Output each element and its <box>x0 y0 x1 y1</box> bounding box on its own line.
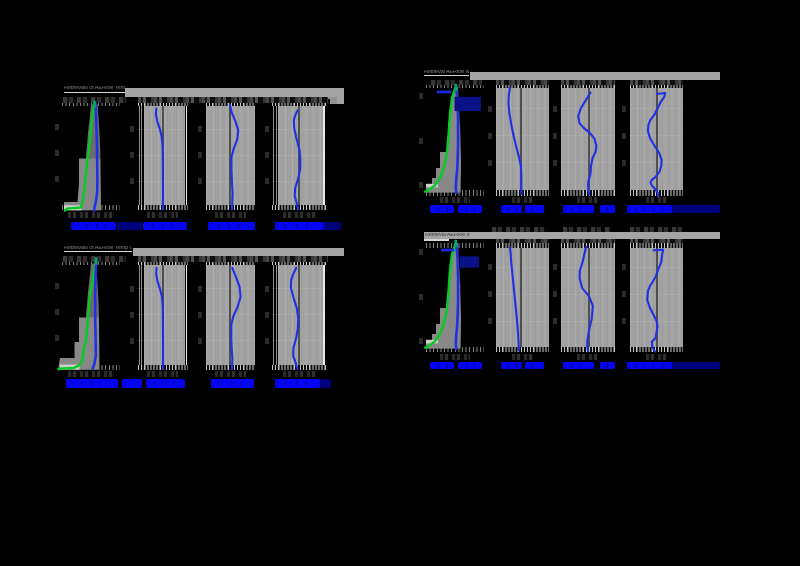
G1 label word gap <box>218 224 219 229</box>
G4 label word gap <box>644 363 645 368</box>
G2 profile subplot gray uncertainty envelope <box>426 87 462 192</box>
G4 tick label smudge <box>630 227 683 232</box>
G2 profile subplot y tick label <box>419 93 423 99</box>
G4 profile subplot bottom tick fringe <box>426 347 484 352</box>
G4 box3 bottom tick labels <box>577 354 599 361</box>
G3 label word gap <box>305 381 306 387</box>
G4 tick label smudge <box>630 239 684 243</box>
G3 profile subplot white envelope base <box>60 365 80 370</box>
G3 box2 horizontal grid <box>137 288 185 289</box>
G1 box2 horizontal grid <box>137 129 185 130</box>
G2 box3 bottom tick fringe <box>561 190 615 195</box>
G1 box3 horizontal grid <box>205 181 255 182</box>
G3 profile subplot y tick label <box>55 283 59 289</box>
G3 label word gap <box>155 381 156 387</box>
G2 label word gap <box>607 207 608 212</box>
G1 box4 bottom tick labels <box>283 212 317 219</box>
G2 box3 zero line <box>588 87 590 191</box>
G3 profile subplot bottom tick fringe <box>62 365 120 370</box>
G1 box4 y tick label <box>265 178 269 184</box>
G3 label word gap <box>91 381 92 387</box>
G1 title text <box>64 86 125 92</box>
G1 box4 top tick fringe <box>272 103 328 106</box>
G2 box2 y tick label <box>488 106 492 112</box>
G2 box4 y tick label <box>622 160 626 166</box>
G4 box4 bottom tick labels <box>646 354 667 361</box>
G3 title underline <box>64 251 132 253</box>
G3 profile subplot blue retrieval profile <box>93 261 97 369</box>
G1 profile subplot bottom tick labels <box>68 212 114 219</box>
G1 label word gap <box>96 224 97 229</box>
G3 title band <box>133 248 344 256</box>
G2 box4 bottom tick labels <box>646 197 667 204</box>
G1 x-axis label text <box>117 222 143 230</box>
G3 box2 gridline <box>141 262 142 368</box>
G2 box3 horizontal grid <box>560 162 615 163</box>
G2 title underline <box>424 75 469 77</box>
G4 box2 blue difference profile <box>510 248 519 351</box>
G2 profile subplot white envelope base <box>426 184 438 188</box>
G3 box3 y tick label <box>198 312 202 318</box>
G2 box2 y tick label <box>488 160 492 166</box>
G4 box3 bottom tick fringe <box>561 347 615 352</box>
G1 tick label smudge <box>63 97 126 104</box>
G4 box2 top tick fringe <box>496 243 550 249</box>
G4 profile subplot y tick label <box>419 338 423 344</box>
G3 box4 y tick label <box>265 286 269 292</box>
G3 box4 horizontal grid <box>272 314 323 315</box>
G4 profile subplot top tick fringe <box>426 243 484 249</box>
G3 box3 y tick label <box>198 286 202 292</box>
G4 box4 top tick fringe <box>630 243 684 249</box>
G1 box3 horizontal grid <box>205 129 255 130</box>
G2 label word gap <box>635 207 636 212</box>
G4 title band <box>424 232 720 239</box>
G2 label word gap <box>580 207 581 212</box>
G2 box4 top tick fringe <box>630 85 684 89</box>
G3 tick label smudge <box>138 256 328 263</box>
G1 label word gap <box>238 224 239 229</box>
G2 x-axis label text <box>501 205 523 213</box>
G2 tick label smudge <box>496 80 550 85</box>
G4 box3 gray envelope fill <box>561 243 615 348</box>
G3 box3 zero line <box>229 264 231 367</box>
G2 label word gap <box>466 207 467 212</box>
G2 x-axis label text <box>430 205 455 213</box>
G4 box4 y tick label <box>622 291 626 297</box>
G2 box3 bottom tick labels <box>577 197 599 204</box>
G4 x-axis label text <box>563 362 595 370</box>
G4 x-axis label text <box>430 362 455 370</box>
G3 box4 y tick label <box>265 312 269 318</box>
G1 profile subplot gray uncertainty envelope <box>64 104 101 210</box>
G2 label word gap <box>516 207 517 212</box>
G2 box3 blue difference profile <box>578 93 596 195</box>
G1 box2 bottom tick fringe <box>138 205 189 210</box>
G1 box2 horizontal grid <box>137 155 185 156</box>
G3 profile subplot bottom tick labels <box>68 371 114 378</box>
G3 box4 blue difference profile <box>291 268 298 369</box>
G2 box3 y tick label <box>553 160 557 166</box>
G3 box4 top tick fringe <box>272 262 328 265</box>
G2 x-axis label text <box>525 205 544 213</box>
G2 box3 horizontal grid <box>560 108 615 109</box>
G4 box4 blue difference profile <box>647 250 663 352</box>
G1 box2 edge gridline <box>186 104 187 209</box>
G1 box2 gridline <box>141 103 142 209</box>
G2 box3 horizontal grid <box>560 135 615 136</box>
G4 tick label smudge <box>563 227 612 232</box>
G3 label word gap <box>81 381 82 387</box>
G2 box4 bottom tick fringe <box>630 190 684 195</box>
G2 box4 horizontal grid <box>629 162 683 163</box>
G1 profile subplot white envelope base <box>64 205 82 210</box>
G1 box4 gray envelope fill <box>278 105 323 207</box>
G3 x-axis label text <box>275 379 320 387</box>
G4 box2 y tick label <box>488 264 492 270</box>
G3 box2 blue difference profile <box>156 268 163 369</box>
G1 box3 horizontal grid <box>205 155 255 156</box>
G1 tick label text mark <box>321 101 325 105</box>
G1 x-axis label text <box>208 222 255 230</box>
G2 box4 zero line <box>656 87 658 191</box>
G1 profile subplot envelope upper shading <box>86 104 100 158</box>
G2 label word gap <box>653 207 654 212</box>
G1 profile subplot y tick label <box>55 124 59 130</box>
G3 box4 gridline <box>276 262 277 368</box>
G1 label word gap <box>86 224 87 229</box>
G3 box4 bottom tick labels <box>283 371 317 378</box>
G4 label word gap <box>474 363 475 368</box>
G2 tick label smudge <box>561 80 615 85</box>
G4 box3 y tick label <box>553 264 557 270</box>
G2 box4 y tick label <box>622 133 626 139</box>
G4 box2 horizontal grid <box>495 267 549 268</box>
G4 title text <box>425 233 470 239</box>
G2 profile subplot teal profile tip <box>454 85 457 90</box>
G4 box2 bottom tick fringe <box>496 347 550 352</box>
G4 label word gap <box>607 363 608 368</box>
G2 x-axis label text <box>672 205 721 213</box>
G1 x-axis label text <box>275 222 324 230</box>
G4 label word gap <box>447 363 448 368</box>
G2 title text <box>424 70 469 76</box>
G4 x-axis label text <box>600 362 616 370</box>
G1 label word gap <box>306 224 307 229</box>
G1 box4 y tick label <box>265 126 269 132</box>
G3 box2 gray envelope fill <box>144 264 185 367</box>
G3 profile subplot top tick fringe <box>62 262 120 265</box>
G3 box3 gray envelope fill <box>206 264 256 367</box>
G4 box2 zero line <box>520 243 522 348</box>
G3 profile subplot envelope upper shading <box>86 264 99 318</box>
G3 x-axis label text <box>211 379 254 387</box>
G3 profile subplot green sonde profile <box>59 261 97 370</box>
G1 box3 zero line <box>229 105 231 207</box>
G2 x-axis label text <box>458 205 483 213</box>
G2 box2 horizontal grid <box>495 162 549 163</box>
G2 box2 y tick label <box>488 133 492 139</box>
G3 profile subplot teal profile tip <box>95 259 98 264</box>
G2 profile subplot y tick label <box>419 138 423 144</box>
G4 label word gap <box>466 363 467 368</box>
G2 tick label smudge <box>630 80 684 85</box>
G2 box4 gray envelope fill <box>630 87 684 191</box>
G1 box3 top tick fringe <box>206 103 256 106</box>
G2 profile subplot top tick fringe <box>426 85 484 89</box>
G3 box4 horizontal grid <box>272 340 323 341</box>
G4 box3 zero line <box>588 243 590 348</box>
G4 x-axis label text <box>672 362 721 370</box>
G3 box2 edge gridline <box>186 263 187 368</box>
G2 box4 y tick label <box>622 106 626 112</box>
G4 box2 horizontal grid <box>495 294 549 295</box>
G4 title underline <box>424 239 449 241</box>
G3 box2 top tick fringe <box>138 262 189 265</box>
G2 profile subplot y tick label <box>419 182 423 188</box>
G1 profile subplot y tick label <box>55 150 59 156</box>
G1 profile subplot teal profile tip <box>93 102 96 107</box>
G3 box3 y tick label <box>198 338 202 344</box>
G1 box3 y tick label <box>198 178 202 184</box>
G3 x-axis label text <box>320 379 331 387</box>
G4 label word gap <box>508 363 509 368</box>
G2 box4 blue difference profile <box>648 93 665 197</box>
G1 profile subplot bottom tick fringe <box>62 205 120 210</box>
G3 box3 bottom tick labels <box>215 371 246 378</box>
G3 box4 horizontal grid <box>272 288 323 289</box>
G2 label word gap <box>447 207 448 212</box>
G2 box2 bottom tick fringe <box>496 190 550 195</box>
G1 box4 zero line <box>298 105 300 207</box>
G2 box2 blue difference profile <box>508 88 521 194</box>
G1 box2 y tick label <box>130 152 134 158</box>
G3 box4 edge gridline <box>323 263 324 368</box>
G2 label word gap <box>532 207 533 212</box>
G3 box3 blue difference profile <box>231 268 240 369</box>
G1 profile subplot y tick label <box>55 176 59 182</box>
G1 box2 y tick label <box>130 126 134 132</box>
G4 label word gap <box>580 363 581 368</box>
G4 profile subplot white envelope base <box>426 340 438 344</box>
G4 box2 bottom tick labels <box>512 354 533 361</box>
G4 box4 y tick label <box>622 264 626 270</box>
G1 x-axis label text <box>71 222 116 230</box>
G3 profile subplot y tick label <box>55 309 59 315</box>
G2 profile subplot blue retrieval profile <box>456 87 458 193</box>
G1 box4 horizontal grid <box>272 155 323 156</box>
G1 box4 edge gridline <box>323 104 324 209</box>
G1 label word gap <box>152 224 153 229</box>
G3 box2 bottom tick fringe <box>138 365 189 370</box>
G2 title band <box>470 72 720 80</box>
G2 label word gap <box>662 207 663 212</box>
G3 box4 gray envelope fill <box>278 264 323 367</box>
G1 box2 horizontal grid <box>137 181 185 182</box>
G1 tick label text mark <box>327 99 330 104</box>
G1 box4 y tick label <box>265 152 269 158</box>
G4 box3 horizontal grid <box>560 294 615 295</box>
G1 box4 gridline <box>273 103 274 209</box>
G1 box3 y tick label <box>198 152 202 158</box>
G2 label word gap <box>508 207 509 212</box>
G1 x-axis label text <box>324 222 341 230</box>
G4 profile subplot bottom tick labels <box>440 354 470 361</box>
G2 box4 horizontal grid <box>629 135 683 136</box>
G4 x-axis label text <box>458 362 483 370</box>
G3 box2 y tick label <box>130 312 134 318</box>
G3 box4 gridline <box>273 262 274 368</box>
G4 label word gap <box>532 363 533 368</box>
G4 box3 top tick fringe <box>561 243 615 249</box>
G1 label word gap <box>285 224 286 229</box>
G4 box4 bottom tick fringe <box>630 347 684 352</box>
G3 box2 horizontal grid <box>137 340 185 341</box>
G3 box2 zero line <box>162 264 164 367</box>
G4 box4 y tick label <box>622 318 626 324</box>
G4 box2 y tick label <box>488 318 492 324</box>
G1 label word gap <box>171 224 172 229</box>
G1 profile subplot top tick fringe <box>62 103 120 106</box>
G1 box4 bottom tick fringe <box>272 205 328 210</box>
G3 box3 horizontal grid <box>205 288 255 289</box>
G3 box2 y tick label <box>130 286 134 292</box>
G4 profile subplot teal profile tip <box>454 241 457 245</box>
G1 tick label smudge <box>138 97 328 104</box>
G4 tick label smudge <box>496 239 550 243</box>
G1 box2 bottom tick labels <box>147 212 178 219</box>
G4 box4 horizontal grid <box>629 321 683 322</box>
G3 x-axis label text <box>146 379 185 387</box>
G2 tick label smudge <box>431 80 482 85</box>
G2 box2 zero line <box>520 87 522 191</box>
G3 label word gap <box>286 381 287 387</box>
G2 box3 y tick label <box>553 133 557 139</box>
G4 box2 gray envelope fill <box>496 243 550 348</box>
G1 box2 y tick label <box>130 178 134 184</box>
G4 box2 horizontal grid <box>495 321 549 322</box>
G2 box3 y tick label <box>553 106 557 112</box>
G3 label word gap <box>165 381 166 387</box>
G2 label word gap <box>474 207 475 212</box>
G3 box3 horizontal grid <box>205 314 255 315</box>
G3 box3 top tick fringe <box>206 262 256 265</box>
G4 box4 zero line <box>656 243 658 348</box>
G3 label word gap <box>100 381 101 387</box>
G4 profile subplot green sonde profile <box>425 243 456 348</box>
G2 box2 gray envelope fill <box>496 87 550 191</box>
G2 profile subplot legend text block <box>455 97 482 111</box>
G1 box4 blue difference profile <box>294 111 301 210</box>
G1 profile subplot blue retrieval profile <box>94 104 97 211</box>
G3 label word gap <box>240 381 241 387</box>
G1 x-axis label text <box>143 222 188 230</box>
G2 profile subplot bottom tick fringe <box>426 190 484 195</box>
G2 label word gap <box>644 207 645 212</box>
G4 label word gap <box>635 363 636 368</box>
G1 label word gap <box>229 224 230 229</box>
G1 box4 gridline <box>276 103 277 209</box>
G4 box4 horizontal grid <box>629 294 683 295</box>
G2 box2 horizontal grid <box>495 135 549 136</box>
G1 box2 zero line <box>162 105 164 207</box>
G1 box2 top tick fringe <box>138 103 189 106</box>
G1 box3 bottom tick labels <box>215 212 246 219</box>
G4 box3 horizontal grid <box>560 321 615 322</box>
G3 box2 y tick label <box>130 338 134 344</box>
G4 label word gap <box>662 363 663 368</box>
G4 profile subplot blue retrieval profile <box>456 243 458 349</box>
G3 box2 bottom tick labels <box>147 371 178 378</box>
G2 box3 top tick fringe <box>561 85 615 89</box>
G4 label word gap <box>516 363 517 368</box>
G2 x-axis label text <box>627 205 672 213</box>
G1 profile subplot green sonde profile <box>65 104 95 211</box>
G2 box2 horizontal grid <box>495 108 549 109</box>
G3 x-axis label text <box>122 379 142 387</box>
G4 profile subplot gray uncertainty envelope <box>426 243 462 348</box>
G2 x-axis label text <box>563 205 595 213</box>
G4 tick label smudge <box>492 227 548 232</box>
G1 box3 y tick label <box>198 126 202 132</box>
G4 x-axis label text <box>627 362 672 370</box>
G1 box2 gridline <box>139 103 140 209</box>
G1 box3 bottom tick fringe <box>206 205 256 210</box>
G4 profile subplot y tick label <box>419 249 423 255</box>
G1 box3 gray envelope fill <box>206 105 256 207</box>
G4 x-axis label text <box>525 362 544 370</box>
G4 x-axis label text <box>501 362 523 370</box>
G2 profile subplot legend line <box>437 91 451 94</box>
G3 x-axis label text <box>66 379 118 387</box>
G1 label word gap <box>296 224 297 229</box>
G2 profile subplot bottom tick labels <box>440 197 470 204</box>
G4 box3 blue difference profile <box>580 247 593 352</box>
G1 title band <box>125 88 344 97</box>
G1 box4 horizontal grid <box>272 129 323 130</box>
G3 box2 horizontal grid <box>137 314 185 315</box>
G1 box3 blue difference profile <box>230 105 238 210</box>
G2 box2 top tick fringe <box>496 85 550 89</box>
G4 box3 y tick label <box>553 291 557 297</box>
G3 label word gap <box>221 381 222 387</box>
G4 tick label smudge <box>561 239 615 243</box>
G2 box2 bottom tick labels <box>512 197 533 204</box>
G3 profile subplot gray uncertainty envelope <box>58 264 100 370</box>
G3 box2 gridline <box>139 262 140 368</box>
G3 box4 y tick label <box>265 338 269 344</box>
G3 label word gap <box>174 381 175 387</box>
G1 box4 horizontal grid <box>272 181 323 182</box>
G3 box3 bottom tick fringe <box>206 365 256 370</box>
G2 profile subplot green sonde profile <box>425 87 456 192</box>
G3 box3 horizontal grid <box>205 340 255 341</box>
G1 title underline <box>64 92 125 94</box>
G4 label word gap <box>653 363 654 368</box>
G2 label word gap <box>571 207 572 212</box>
G1 box2 blue difference profile <box>156 109 163 210</box>
G1 label word gap <box>105 224 106 229</box>
G1 label word gap <box>162 224 163 229</box>
G3 title text <box>64 246 132 252</box>
G2 label word gap <box>438 207 439 212</box>
G2 x-axis label text <box>600 205 616 213</box>
G4 profile subplot y tick label <box>419 294 423 300</box>
G3 box4 bottom tick fringe <box>272 365 328 370</box>
G4 box3 y tick label <box>553 318 557 324</box>
G4 box2 y tick label <box>488 291 492 297</box>
G4 profile subplot legend line <box>441 249 454 252</box>
